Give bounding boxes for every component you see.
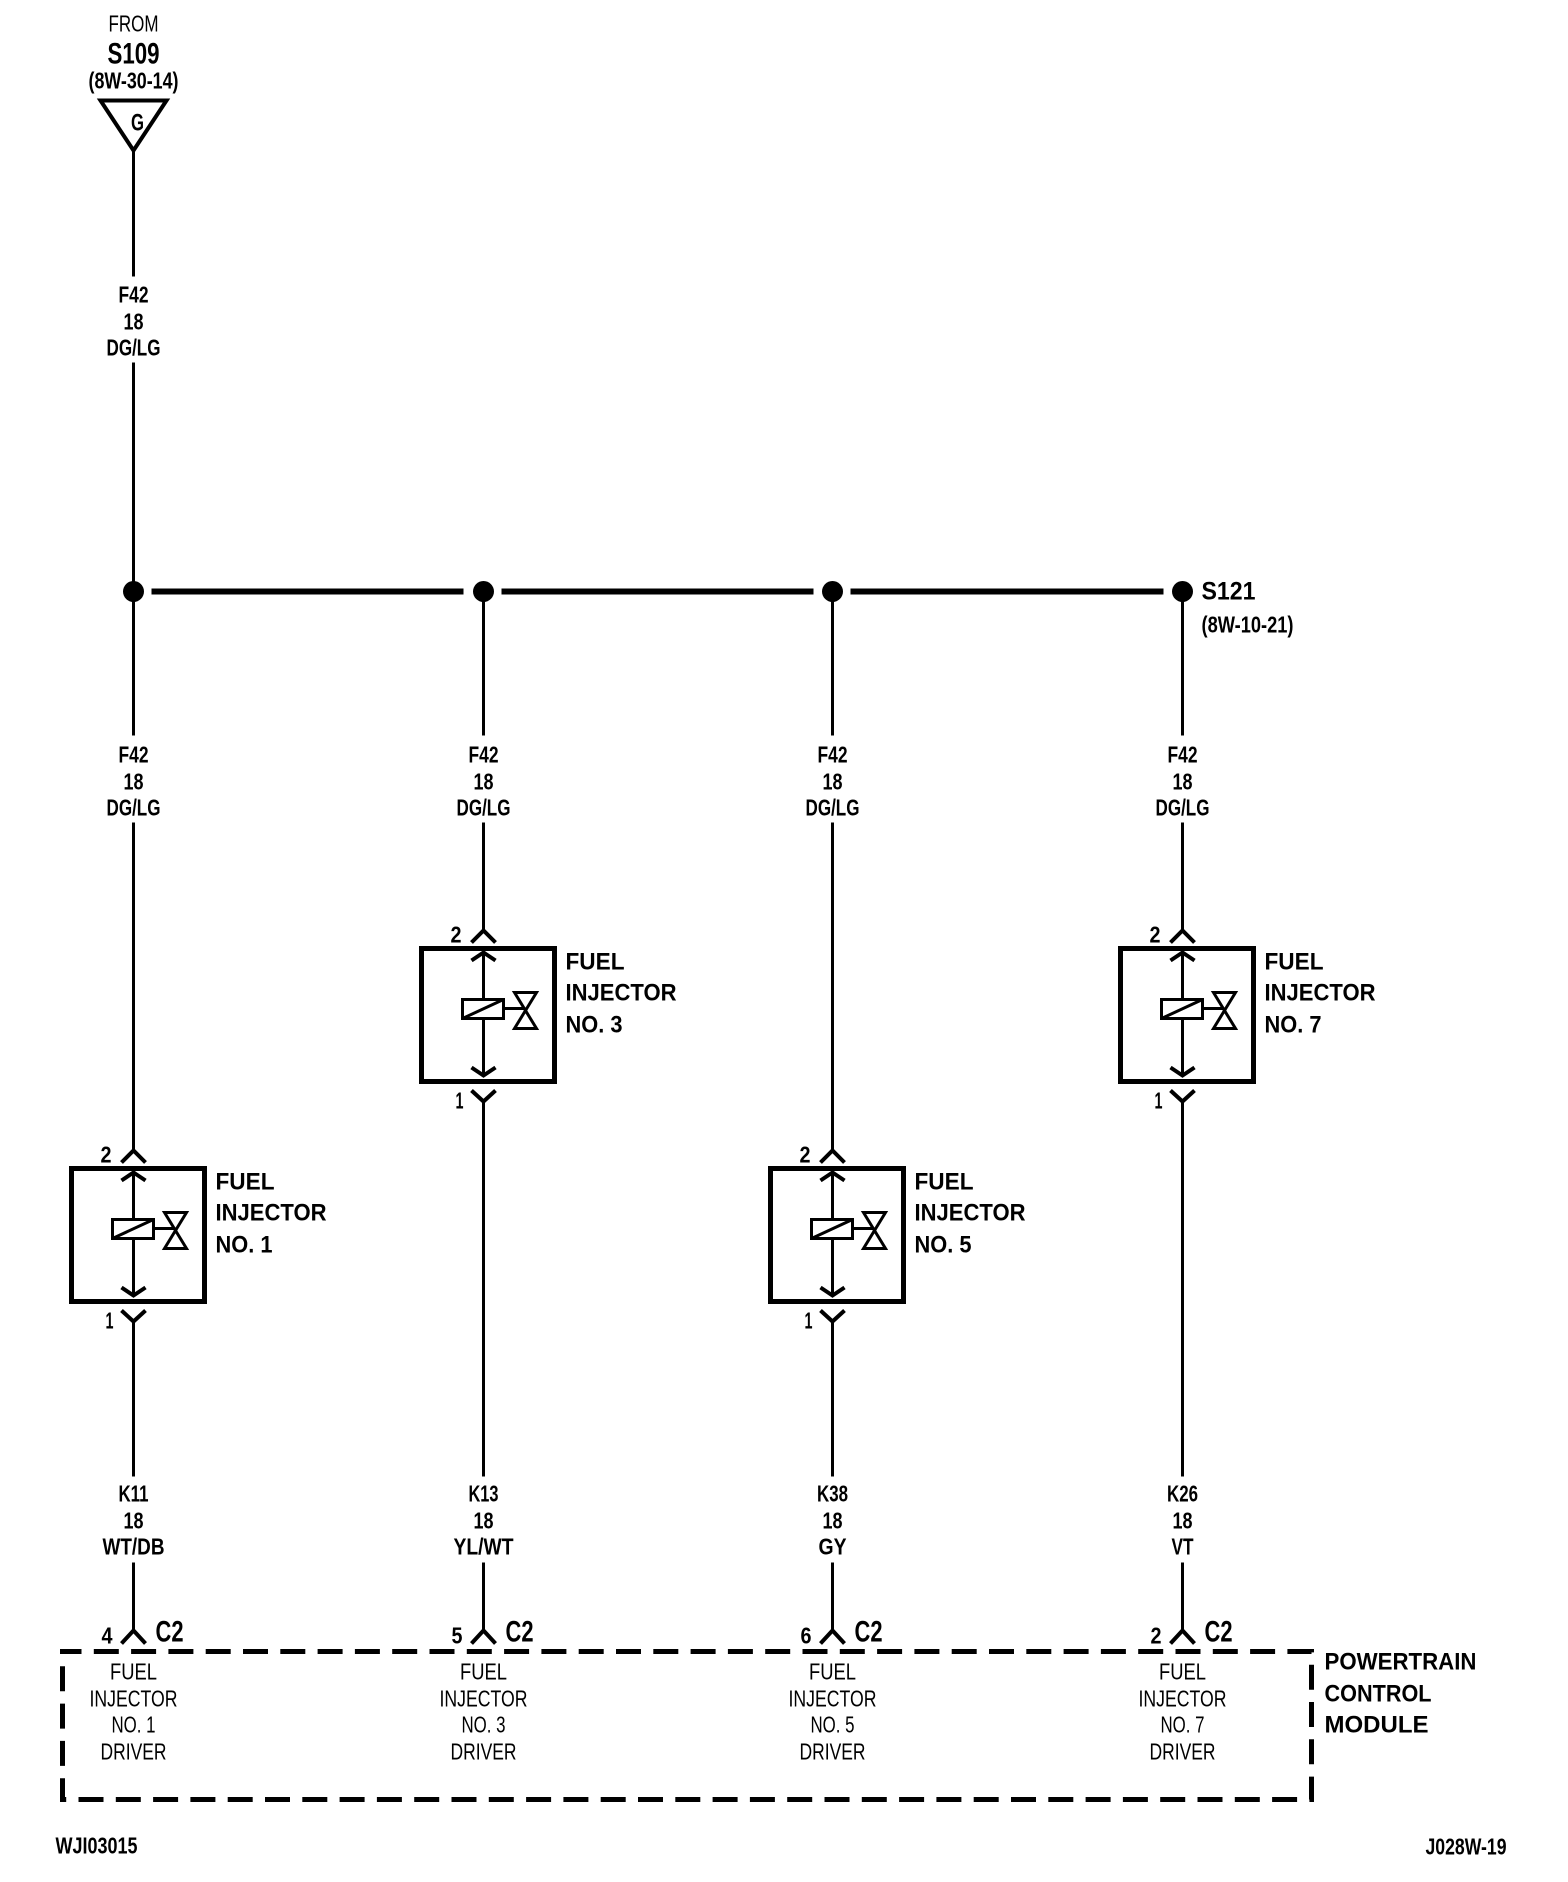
svg-text:FUEL: FUEL bbox=[809, 1659, 856, 1685]
svg-text:1: 1 bbox=[456, 1088, 464, 1114]
branch wire 2: bus to label bbox=[482, 595, 485, 736]
wire label to injector no. 7 pin 2 bbox=[1181, 823, 1184, 931]
PCM driver label (injector no. 3) bbox=[440, 1659, 528, 1765]
valve nozzle of injector no. 3 bbox=[504, 993, 537, 1029]
svg-text:C2: C2 bbox=[506, 1616, 534, 1649]
valve nozzle of injector no. 7 bbox=[1203, 993, 1236, 1029]
splice bus wire S121 bbox=[152, 589, 1164, 595]
svg-text:2: 2 bbox=[1150, 922, 1161, 948]
svg-text:FUEL: FUEL bbox=[566, 949, 625, 976]
svg-text:2: 2 bbox=[451, 922, 462, 948]
svg-text:FUEL: FUEL bbox=[1265, 949, 1324, 976]
svg-text:VT: VT bbox=[1172, 1534, 1194, 1560]
svg-text:INJECTOR: INJECTOR bbox=[90, 1686, 178, 1712]
svg-text:18: 18 bbox=[124, 309, 144, 335]
svg-text:FUEL: FUEL bbox=[460, 1659, 507, 1685]
fuel injector no. 5 box bbox=[771, 1169, 904, 1302]
svg-text:F42: F42 bbox=[119, 742, 149, 768]
svg-text:CONTROL: CONTROL bbox=[1325, 1681, 1432, 1708]
svg-text:C2: C2 bbox=[1205, 1616, 1233, 1649]
valve nozzle of injector no. 1 bbox=[154, 1213, 187, 1249]
splice junction node 2 bbox=[473, 581, 494, 602]
svg-text:K38: K38 bbox=[817, 1481, 848, 1507]
svg-text:NO. 7: NO. 7 bbox=[1265, 1012, 1322, 1039]
splice label S121 bbox=[1202, 578, 1294, 638]
svg-text:18: 18 bbox=[823, 1508, 843, 1534]
svg-text:18: 18 bbox=[1173, 769, 1193, 795]
svg-text:FROM: FROM bbox=[109, 11, 159, 37]
wire label F42 18 DG/LG (branch 4) bbox=[1156, 742, 1210, 821]
splice junction node 1 bbox=[123, 581, 144, 602]
svg-text:C2: C2 bbox=[156, 1616, 184, 1649]
svg-text:NO. 5: NO. 5 bbox=[811, 1712, 855, 1738]
wire to splice S121 bus bbox=[132, 363, 135, 592]
svg-text:K13: K13 bbox=[469, 1481, 499, 1507]
PCM pin 4 C2 connector bbox=[102, 1616, 184, 1649]
svg-text:NO. 3: NO. 3 bbox=[462, 1712, 506, 1738]
svg-text:INJECTOR: INJECTOR bbox=[566, 980, 677, 1007]
svg-text:DG/LG: DG/LG bbox=[457, 795, 511, 821]
pin 2 connector (injector no. 1) bbox=[101, 1142, 146, 1181]
svg-text:FUEL: FUEL bbox=[1159, 1659, 1206, 1685]
splice junction node 4 bbox=[1172, 581, 1193, 602]
svg-text:1: 1 bbox=[1155, 1088, 1163, 1114]
wire injector no. 1 pin 1 to label bbox=[132, 1322, 135, 1477]
svg-text:FUEL: FUEL bbox=[216, 1169, 275, 1196]
wire label to PCM pin 2 bbox=[1181, 1563, 1184, 1631]
svg-text:1: 1 bbox=[106, 1308, 114, 1334]
svg-text:DG/LG: DG/LG bbox=[107, 795, 161, 821]
pin 1 connector (injector no. 7) bbox=[1155, 1068, 1195, 1114]
pin 1 connector (injector no. 3) bbox=[456, 1068, 496, 1114]
svg-text:S121: S121 bbox=[1202, 578, 1256, 606]
wire label K13 18 YL/WT bbox=[454, 1481, 514, 1560]
svg-text:FUEL: FUEL bbox=[110, 1659, 157, 1685]
fuel injector no. 7 box bbox=[1121, 949, 1254, 1082]
svg-text:18: 18 bbox=[1173, 1508, 1193, 1534]
wire injector no. 3 pin 1 to label bbox=[482, 1102, 485, 1477]
branch wire 3: bus to label bbox=[831, 595, 834, 736]
svg-text:1: 1 bbox=[805, 1308, 813, 1334]
svg-text:18: 18 bbox=[474, 1508, 494, 1534]
injector internal wire bbox=[1181, 953, 1184, 1076]
branch wire 1: bus to label bbox=[132, 595, 135, 736]
wire label F42 18 DG/LG (top) bbox=[107, 282, 161, 361]
svg-text:2: 2 bbox=[800, 1142, 811, 1168]
svg-text:(8W-30-14): (8W-30-14) bbox=[89, 68, 179, 94]
svg-text:C2: C2 bbox=[855, 1616, 883, 1649]
wire label K26 18 VT bbox=[1167, 1481, 1198, 1560]
svg-text:POWERTRAIN: POWERTRAIN bbox=[1325, 1649, 1477, 1676]
svg-text:6: 6 bbox=[801, 1623, 812, 1649]
wire label F42 18 DG/LG (branch 1) bbox=[107, 742, 161, 821]
svg-text:INJECTOR: INJECTOR bbox=[440, 1686, 528, 1712]
svg-text:F42: F42 bbox=[119, 282, 149, 308]
svg-text:MODULE: MODULE bbox=[1325, 1712, 1429, 1739]
PCM pin 6 C2 connector bbox=[801, 1616, 883, 1649]
svg-text:DRIVER: DRIVER bbox=[1150, 1739, 1216, 1765]
svg-text:18: 18 bbox=[474, 769, 494, 795]
svg-text:4: 4 bbox=[102, 1623, 113, 1649]
solenoid coil of injector no. 7 bbox=[1162, 1000, 1203, 1019]
svg-text:K11: K11 bbox=[119, 1481, 149, 1507]
PCM pin 5 C2 connector bbox=[452, 1616, 534, 1649]
solenoid coil of injector no. 1 bbox=[113, 1220, 154, 1239]
fuel injector no. 5 name label bbox=[915, 1169, 1026, 1259]
ground symbol S109 feed bbox=[89, 11, 179, 151]
svg-text:F42: F42 bbox=[1168, 742, 1198, 768]
svg-text:G: G bbox=[131, 110, 144, 137]
svg-text:(8W-10-21): (8W-10-21) bbox=[1202, 612, 1294, 638]
svg-text:NO. 5: NO. 5 bbox=[915, 1232, 972, 1259]
branch wire 4: bus to label bbox=[1181, 595, 1184, 736]
svg-text:NO. 1: NO. 1 bbox=[112, 1712, 156, 1738]
wire injector no. 7 pin 1 to label bbox=[1181, 1102, 1184, 1477]
svg-text:INJECTOR: INJECTOR bbox=[789, 1686, 877, 1712]
wire label to injector no. 3 pin 2 bbox=[482, 823, 485, 931]
wire label to PCM pin 6 bbox=[831, 1563, 834, 1631]
svg-text:18: 18 bbox=[124, 1508, 144, 1534]
pin 1 connector (injector no. 5) bbox=[805, 1288, 845, 1334]
wire label to injector no. 5 pin 2 bbox=[831, 823, 834, 1151]
svg-text:INJECTOR: INJECTOR bbox=[216, 1200, 327, 1227]
pin 2 connector (injector no. 7) bbox=[1150, 922, 1195, 961]
svg-text:F42: F42 bbox=[818, 742, 848, 768]
svg-text:DRIVER: DRIVER bbox=[101, 1739, 167, 1765]
wire label K11 18 WT/DB bbox=[103, 1481, 165, 1560]
fuel injector no. 1 box bbox=[72, 1169, 205, 1302]
pin 2 connector (injector no. 5) bbox=[800, 1142, 845, 1181]
solenoid coil of injector no. 3 bbox=[463, 1000, 504, 1019]
svg-text:DG/LG: DG/LG bbox=[1156, 795, 1210, 821]
svg-text:INJECTOR: INJECTOR bbox=[1265, 980, 1376, 1007]
svg-text:NO. 1: NO. 1 bbox=[216, 1232, 273, 1259]
injector internal wire bbox=[831, 1173, 834, 1296]
fuel injector no. 3 name label bbox=[566, 949, 677, 1039]
wire label K38 18 GY bbox=[817, 1481, 848, 1560]
svg-text:5: 5 bbox=[452, 1623, 463, 1649]
wire from S109 ground to splice label bbox=[132, 151, 135, 277]
pin 1 connector (injector no. 1) bbox=[106, 1288, 146, 1334]
svg-text:WT/DB: WT/DB bbox=[103, 1534, 165, 1560]
svg-text:INJECTOR: INJECTOR bbox=[1139, 1686, 1227, 1712]
svg-text:J028W-19: J028W-19 bbox=[1426, 1834, 1507, 1860]
wire label to PCM pin 5 bbox=[482, 1563, 485, 1631]
svg-text:DRIVER: DRIVER bbox=[451, 1739, 517, 1765]
PCM driver label (injector no. 1) bbox=[90, 1659, 178, 1765]
svg-text:DRIVER: DRIVER bbox=[800, 1739, 866, 1765]
svg-text:18: 18 bbox=[124, 769, 144, 795]
PCM driver label (injector no. 5) bbox=[789, 1659, 877, 1765]
svg-text:INJECTOR: INJECTOR bbox=[915, 1200, 1026, 1227]
svg-text:WJI03015: WJI03015 bbox=[56, 1833, 138, 1859]
svg-text:DG/LG: DG/LG bbox=[107, 335, 161, 361]
svg-text:DG/LG: DG/LG bbox=[806, 795, 860, 821]
valve nozzle of injector no. 5 bbox=[853, 1213, 886, 1249]
fuel injector no. 1 name label bbox=[216, 1169, 327, 1259]
svg-text:NO. 3: NO. 3 bbox=[566, 1012, 623, 1039]
svg-text:NO. 7: NO. 7 bbox=[1161, 1712, 1205, 1738]
svg-text:18: 18 bbox=[823, 769, 843, 795]
injector internal wire bbox=[482, 953, 485, 1076]
powertrain control module label bbox=[1325, 1649, 1477, 1739]
powertrain control module box (dashed) bbox=[63, 1652, 1312, 1800]
pin 2 connector (injector no. 3) bbox=[451, 922, 496, 961]
injector internal wire bbox=[132, 1173, 135, 1296]
svg-text:FUEL: FUEL bbox=[915, 1169, 974, 1196]
PCM driver label (injector no. 7) bbox=[1139, 1659, 1227, 1765]
wire label to injector no. 1 pin 2 bbox=[132, 823, 135, 1151]
svg-text:K26: K26 bbox=[1167, 1481, 1198, 1507]
wire label F42 18 DG/LG (branch 3) bbox=[806, 742, 860, 821]
solenoid coil of injector no. 5 bbox=[812, 1220, 853, 1239]
wire label to PCM pin 4 bbox=[132, 1563, 135, 1631]
svg-text:YL/WT: YL/WT bbox=[454, 1534, 514, 1560]
PCM pin 2 C2 connector bbox=[1151, 1616, 1233, 1649]
fuel injector no. 3 box bbox=[422, 949, 555, 1082]
splice junction node 3 bbox=[822, 581, 843, 602]
fuel injector no. 7 name label bbox=[1265, 949, 1376, 1039]
svg-text:S109: S109 bbox=[108, 38, 160, 71]
svg-text:2: 2 bbox=[101, 1142, 112, 1168]
svg-text:2: 2 bbox=[1151, 1623, 1162, 1649]
svg-text:F42: F42 bbox=[469, 742, 499, 768]
wire label F42 18 DG/LG (branch 2) bbox=[457, 742, 511, 821]
wire injector no. 5 pin 1 to label bbox=[831, 1322, 834, 1477]
svg-text:GY: GY bbox=[819, 1534, 847, 1560]
